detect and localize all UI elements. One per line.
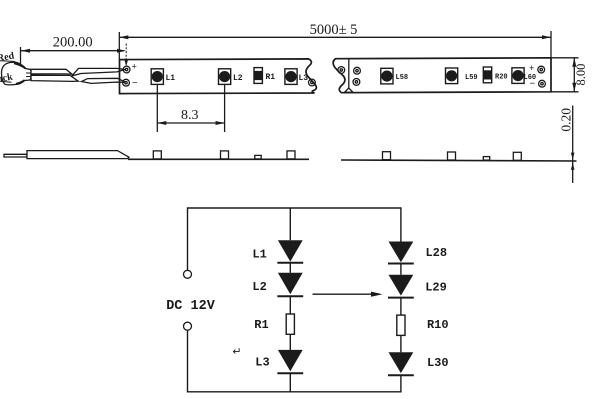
svg-text:R10: R10 bbox=[427, 318, 449, 332]
solder pad - (right) bbox=[530, 79, 546, 90]
resistor R1 (strip) bbox=[254, 68, 275, 84]
LED L1 (strip) bbox=[151, 69, 175, 85]
svg-text:L2: L2 bbox=[252, 280, 266, 294]
resistor R10 bbox=[397, 315, 449, 335]
svg-text:−: − bbox=[132, 78, 138, 89]
dimension 8.3 bbox=[157, 85, 224, 133]
dimension 5000±5 bbox=[119, 22, 551, 59]
svg-text:R1: R1 bbox=[266, 73, 276, 82]
side view LED bump L2 bbox=[221, 151, 229, 159]
svg-text:↵: ↵ bbox=[232, 346, 241, 358]
svg-text:L3: L3 bbox=[255, 356, 269, 370]
side view tape (right segment) bbox=[341, 160, 577, 161]
LED L28 bbox=[388, 242, 447, 264]
svg-text:L1: L1 bbox=[252, 248, 266, 262]
side view connector pin bbox=[4, 154, 27, 157]
svg-text:+: + bbox=[132, 63, 137, 73]
svg-text:L2: L2 bbox=[233, 74, 243, 83]
wire: middle branch bbox=[289, 208, 291, 240]
svg-text:−: − bbox=[530, 79, 536, 90]
strip break (cut marks and pads) bbox=[309, 58, 361, 92]
LED L3 bbox=[255, 350, 303, 373]
svg-text:5000± 5: 5000± 5 bbox=[310, 22, 358, 38]
wire label Black bbox=[0, 72, 14, 87]
side view cable bbox=[27, 151, 129, 159]
side view LED bump L59 bbox=[448, 152, 456, 160]
resistor R1 bbox=[254, 314, 294, 334]
svg-text:+: + bbox=[529, 64, 534, 74]
LED L3 (strip) bbox=[285, 69, 308, 85]
side view resistor bump R1 bbox=[255, 155, 261, 159]
svg-text:L3: L3 bbox=[299, 74, 309, 83]
LED L2 bbox=[252, 273, 303, 297]
svg-text:L59: L59 bbox=[465, 74, 478, 82]
svg-text:R1: R1 bbox=[254, 318, 268, 332]
LED strip body right section (top view) bbox=[333, 58, 551, 93]
LED L29 bbox=[388, 275, 447, 298]
svg-text:DC 12V: DC 12V bbox=[166, 299, 216, 314]
LED L2 (strip) bbox=[219, 69, 243, 85]
resistor R20 (strip) bbox=[483, 67, 507, 83]
LED L30 bbox=[388, 352, 449, 375]
connector plug bbox=[2, 62, 32, 85]
side view LED bump L3 bbox=[287, 151, 295, 159]
dimension 8.00 bbox=[551, 58, 588, 92]
svg-text:R20: R20 bbox=[495, 74, 508, 82]
solder pad - (left) bbox=[123, 78, 138, 89]
wire: top rail bbox=[188, 208, 401, 271]
svg-text:L29: L29 bbox=[425, 281, 447, 295]
side view LED bump L1 bbox=[153, 151, 161, 159]
terminal - (circle) bbox=[184, 322, 192, 330]
svg-text:L30: L30 bbox=[427, 356, 449, 370]
svg-text:8.00: 8.00 bbox=[574, 64, 588, 86]
wire label Red bbox=[0, 51, 19, 65]
side view LED bump L60 bbox=[513, 152, 521, 160]
svg-text:L28: L28 bbox=[425, 246, 447, 260]
LED L58 (strip) bbox=[381, 68, 408, 84]
svg-text:8.3: 8.3 bbox=[181, 108, 199, 123]
terminal + (circle) bbox=[184, 270, 192, 278]
svg-text:L58: L58 bbox=[396, 74, 409, 82]
svg-text:0.20: 0.20 bbox=[558, 108, 573, 132]
solder pad + (left) bbox=[123, 63, 137, 73]
black wire (bottom lead with break) bbox=[31, 75, 126, 83]
red wire (top lead with break) bbox=[31, 68, 125, 76]
LED L1 bbox=[252, 240, 303, 263]
LED L60 (strip) bbox=[512, 68, 536, 84]
LED L59 (strip) bbox=[446, 68, 478, 84]
LED strip body left section (top view) bbox=[120, 59, 317, 94]
dimension 200.00 bbox=[21, 34, 128, 66]
solder pad + (right) bbox=[529, 64, 545, 74]
side view tape (left segment) bbox=[128, 158, 309, 160]
wire: bottom rail bbox=[188, 330, 401, 392]
wire: right branch bbox=[400, 264, 402, 275]
dimension 0.20 bbox=[558, 106, 574, 184]
svg-text:L1: L1 bbox=[166, 74, 176, 83]
side view resistor bump R20 bbox=[483, 157, 489, 161]
side view LED bump L58 bbox=[383, 152, 391, 160]
svg-text:200.00: 200.00 bbox=[53, 34, 93, 50]
arrow (repeat indicator) bbox=[313, 292, 383, 297]
